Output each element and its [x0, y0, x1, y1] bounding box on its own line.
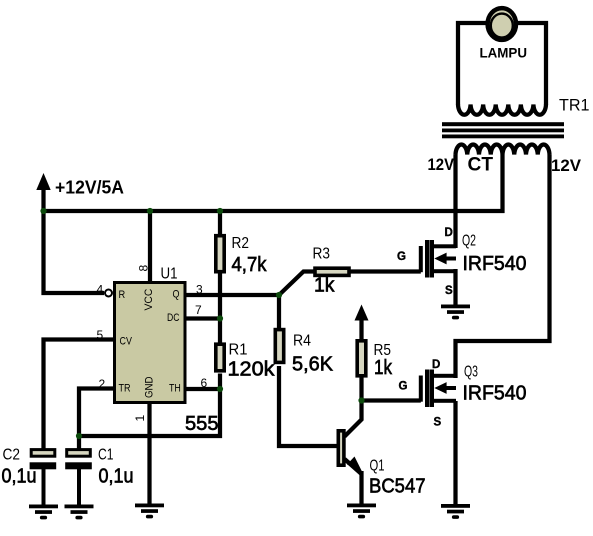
wire R2 bottom stem	[218, 273, 222, 319]
capacitor C1 stem	[77, 469, 81, 506]
svg-text:3: 3	[196, 283, 203, 297]
wire Q3 drain to transformer right	[456, 155, 550, 379]
svg-text:G: G	[397, 251, 406, 263]
wire Q3 source vertical	[453, 401, 457, 504]
ground Q2 source	[441, 305, 470, 320]
wire TR-TH link	[79, 388, 220, 436]
transistor Q2 channel plates	[425, 240, 434, 278]
svg-text:D: D	[432, 359, 440, 371]
svg-text:+12V/5A: +12V/5A	[55, 178, 124, 198]
capacitor C2 stem	[42, 469, 46, 506]
svg-text:1k: 1k	[314, 275, 335, 297]
transistor Q2 bulk arrow	[434, 253, 456, 265]
svg-text:Q1: Q1	[370, 458, 385, 475]
wire R2 top stem	[218, 211, 222, 236]
svg-text:6: 6	[201, 376, 208, 390]
svg-text:U1: U1	[161, 266, 178, 283]
svg-text:GND: GND	[144, 376, 156, 398]
wire Q3 gate lead	[362, 398, 421, 402]
resistor R3	[315, 268, 349, 275]
svg-text:R: R	[119, 289, 126, 301]
wire Q2 drain vertical	[453, 155, 457, 249]
transformer core bars	[442, 122, 564, 138]
svg-text:LAMPU: LAMPU	[480, 45, 528, 61]
svg-text:D: D	[445, 227, 453, 239]
wire R4 bottom to Q1 base	[279, 366, 338, 446]
wire GND pin 1	[147, 402, 151, 504]
svg-text:1k: 1k	[374, 357, 393, 379]
transistor Q3 gate bar	[419, 376, 423, 402]
wire +12V bus	[42, 209, 505, 213]
wire R3 to Q2 gate	[351, 269, 421, 273]
svg-text:TH: TH	[169, 383, 181, 395]
svg-text:C1: C1	[98, 447, 114, 464]
svg-text:1: 1	[133, 415, 147, 422]
wire Q1 collector	[345, 401, 362, 437]
svg-text:IRF540: IRF540	[463, 253, 527, 275]
wire VCC pin 8	[148, 213, 152, 282]
svg-text:Q2: Q2	[462, 233, 476, 250]
svg-text:2: 2	[99, 377, 106, 391]
svg-text:12V: 12V	[551, 156, 582, 175]
svg-text:7: 7	[195, 303, 202, 317]
transistor Q3 source lead	[434, 399, 456, 403]
wire CT center tap	[500, 155, 504, 214]
transistor Q1 emitter arrow	[347, 457, 362, 472]
pin 4 reset bubble	[105, 290, 112, 297]
node DC-R1	[217, 315, 223, 321]
transistor Q2 gate bar	[419, 246, 423, 272]
+12V supply arrow	[36, 173, 50, 190]
capacitor C2 top plate	[31, 450, 55, 457]
svg-text:555: 555	[185, 413, 219, 435]
svg-text:DC: DC	[167, 312, 180, 324]
wire lamp loop	[458, 23, 546, 105]
wire supply stem	[41, 188, 45, 213]
node TH-R1	[217, 386, 223, 392]
svg-text:R3: R3	[313, 246, 331, 263]
svg-text:0,1u: 0,1u	[2, 466, 37, 488]
wire Q2 source vertical	[453, 269, 457, 305]
svg-text:12V: 12V	[428, 155, 455, 174]
svg-text:R2: R2	[232, 235, 250, 252]
ground 555 pin1	[135, 504, 164, 519]
svg-text:CT: CT	[468, 154, 494, 175]
node TR-C1	[76, 433, 82, 439]
resistor R4	[275, 330, 283, 363]
node bus-vcc	[147, 208, 153, 214]
transistor Q3 drain lead	[434, 374, 456, 378]
ground C1	[65, 505, 94, 520]
svg-text:R1: R1	[229, 342, 248, 359]
svg-text:120k: 120k	[228, 359, 276, 381]
svg-text:G: G	[399, 380, 408, 392]
svg-text:IRF540: IRF540	[463, 383, 527, 405]
capacitor C1 bottom plate	[65, 462, 92, 469]
capacitor C1 top plate	[67, 450, 91, 457]
transformer TR1 top winding	[458, 105, 546, 115]
transistor Q1 base bar	[338, 431, 344, 465]
svg-text:TR1: TR1	[559, 96, 590, 115]
wire R1 top stem	[218, 319, 222, 345]
node bus-left	[40, 208, 46, 214]
wire Q1 emitter to ground	[359, 471, 363, 504]
lamp	[488, 8, 516, 40]
ground Q3 source	[441, 504, 470, 519]
transistor Q3 bulk arrow	[434, 382, 456, 394]
svg-text:4,7k: 4,7k	[232, 254, 268, 276]
wire R5 bottom stem	[359, 377, 363, 402]
node R5-gate	[358, 397, 364, 403]
wire Q pin 3 output	[186, 293, 280, 297]
wire left rail to pin 4	[44, 211, 105, 293]
R5 supply arrow	[355, 305, 369, 321]
svg-text:S: S	[445, 285, 453, 297]
wire CV pin 5 to C2	[44, 340, 115, 450]
svg-text:8: 8	[137, 265, 151, 272]
resistor R1	[216, 344, 224, 371]
svg-text:Q3: Q3	[464, 364, 478, 381]
svg-text:C2: C2	[3, 447, 21, 464]
wire TR pin 2 to C1	[79, 389, 114, 450]
svg-text:4: 4	[97, 283, 104, 297]
transistor Q3 channel plates	[425, 370, 434, 408]
capacitor C2 bottom plate	[30, 462, 57, 469]
svg-text:CV: CV	[120, 336, 133, 348]
transistor Q2 drain lead	[434, 244, 456, 248]
transistor Q2 source lead	[434, 269, 456, 273]
svg-text:S: S	[434, 417, 442, 429]
transformer TR1 bottom winding	[456, 145, 550, 155]
resistor R5	[357, 341, 366, 376]
node bus-R2	[217, 208, 223, 214]
svg-text:5: 5	[97, 328, 104, 342]
wire DC pin 7 stub	[186, 316, 221, 320]
ground C2	[29, 505, 58, 520]
svg-text:5,6K: 5,6K	[292, 354, 334, 376]
svg-text:Q: Q	[173, 289, 180, 301]
resistor R2	[216, 236, 224, 272]
wire Q1 emitter diagonal	[345, 459, 362, 474]
wire diagonal to R3	[279, 272, 315, 296]
wire TH pin 6 stub	[186, 387, 221, 391]
op-amp U1 555 IC body	[115, 283, 186, 403]
ground Q1 emitter	[347, 504, 376, 519]
svg-text:0,1u: 0,1u	[99, 466, 134, 488]
wire R5 arrow stem	[359, 318, 363, 341]
svg-text:VCC: VCC	[143, 289, 155, 311]
svg-text:BC547: BC547	[369, 476, 426, 498]
svg-text:TR: TR	[119, 383, 131, 395]
wire R1 bottom stem	[218, 374, 222, 390]
svg-text:R4: R4	[293, 333, 311, 350]
wire R4 top stem	[277, 295, 281, 330]
node Q3-R4	[276, 292, 282, 298]
